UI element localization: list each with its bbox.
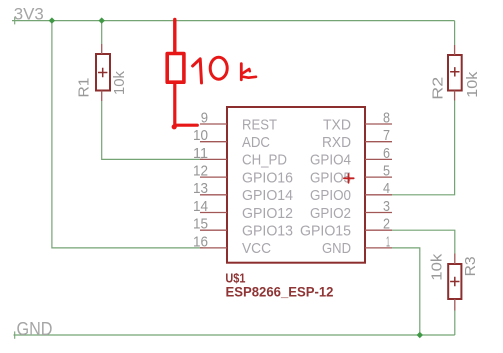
svg-text:GPIO2: GPIO2 — [310, 205, 351, 222]
svg-text:REST: REST — [242, 116, 277, 133]
svg-text:8: 8 — [383, 109, 390, 126]
svg-text:15: 15 — [193, 216, 208, 233]
svg-text:16: 16 — [193, 233, 208, 250]
svg-text:GPIO12: GPIO12 — [242, 205, 293, 222]
svg-text:7: 7 — [383, 127, 390, 144]
svg-text:GPIO4: GPIO4 — [310, 152, 351, 169]
svg-text:R3: R3 — [462, 256, 479, 276]
svg-text:1: 1 — [386, 233, 390, 250]
svg-text:10k: 10k — [464, 71, 481, 98]
svg-text:GPIO16: GPIO16 — [242, 169, 293, 186]
svg-text:12: 12 — [193, 163, 208, 180]
svg-text:CH_PD: CH_PD — [242, 152, 287, 169]
svg-text:11: 11 — [193, 145, 208, 162]
svg-text:R1: R1 — [76, 78, 93, 98]
svg-text:U$1: U$1 — [225, 270, 245, 285]
svg-text:TXD: TXD — [323, 116, 351, 133]
svg-text:9: 9 — [201, 109, 208, 126]
svg-text:ADC: ADC — [242, 134, 270, 151]
svg-text:ESP8266_ESP-12: ESP8266_ESP-12 — [226, 284, 334, 299]
svg-text:RXD: RXD — [322, 134, 351, 151]
svg-text:3: 3 — [383, 198, 390, 215]
svg-text:6: 6 — [383, 145, 390, 162]
svg-text:5: 5 — [383, 163, 390, 180]
svg-text:3V3: 3V3 — [14, 5, 44, 24]
svg-text:4: 4 — [383, 180, 390, 197]
svg-text:2: 2 — [383, 216, 390, 233]
svg-text:14: 14 — [193, 198, 208, 215]
svg-text:10: 10 — [193, 127, 208, 144]
svg-text:GPIO14: GPIO14 — [242, 187, 293, 204]
svg-text:10k: 10k — [111, 71, 128, 95]
svg-text:GND: GND — [17, 319, 53, 339]
svg-text:GPIO15: GPIO15 — [300, 223, 351, 240]
svg-text:GPIO0: GPIO0 — [310, 187, 351, 204]
svg-text:GPIO13: GPIO13 — [242, 223, 293, 240]
svg-text:13: 13 — [193, 180, 208, 197]
svg-text:10k: 10k — [428, 253, 445, 281]
svg-text:R2: R2 — [430, 77, 447, 100]
svg-text:VCC: VCC — [242, 240, 271, 257]
svg-text:GND: GND — [322, 240, 351, 257]
